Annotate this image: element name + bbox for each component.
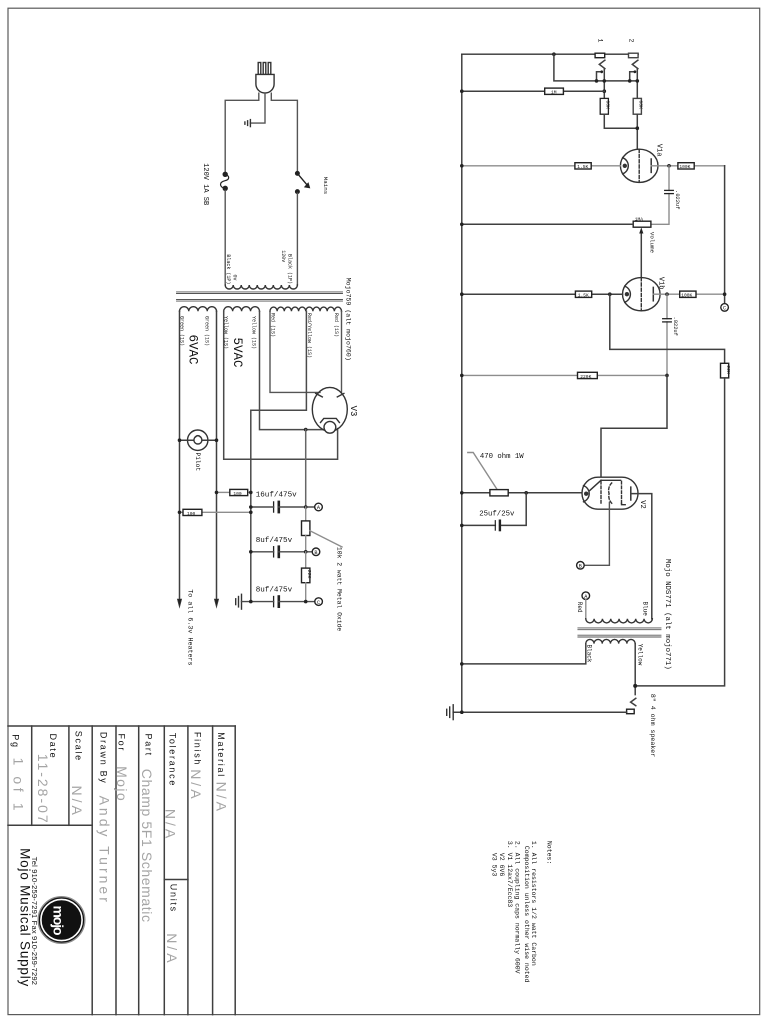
notes text block — [490, 841, 552, 983]
wire jack1 tip down — [603, 69, 605, 99]
svg-text:16uf/475v: 16uf/475v — [256, 491, 297, 499]
wire jack2 tip down — [636, 69, 638, 99]
svg-text:Notes:: Notes: — [545, 841, 552, 864]
svg-text:120v: 120v — [280, 250, 286, 262]
OT core — [578, 628, 661, 637]
wire yellow right to V3 filament — [260, 311, 324, 429]
leader line 10k note — [310, 531, 342, 547]
input jack 2 tip contact — [632, 60, 638, 68]
OT primary winding — [586, 619, 653, 623]
svg-text:V3 5y3: V3 5y3 — [490, 853, 497, 877]
220K grid leak line — [462, 374, 667, 376]
fuse F1 120V 1A SB — [221, 172, 229, 191]
svg-text:To all 6.3v Heaters: To all 6.3v Heaters — [186, 589, 194, 665]
V1b cathode line with 1.5K — [462, 293, 623, 295]
svg-text:2. All coupling caps normally: 2. All coupling caps normally 600V — [514, 841, 521, 974]
svg-text:N/A: N/A — [69, 786, 85, 818]
jack 2 shorting contact — [630, 72, 634, 81]
wire 22K down to speaker — [635, 378, 724, 686]
svg-text:.022uf: .022uf — [674, 190, 680, 209]
rectifier tube V3 — [312, 387, 347, 433]
wire plug right lead to switch — [271, 93, 297, 172]
svg-text:100K: 100K — [679, 164, 690, 170]
svg-text:100: 100 — [187, 511, 196, 517]
svg-text:Pg: Pg — [10, 734, 20, 748]
filter cap 16uf/475v — [274, 502, 279, 512]
svg-text:N/A: N/A — [213, 782, 229, 814]
svg-text:Pilot: Pilot — [194, 453, 201, 472]
triode V1a — [620, 149, 658, 182]
T1 secondary winding yellow 5VAC — [224, 307, 260, 312]
resistor box 100K (V1b) — [680, 291, 696, 297]
junction dot B+ takeoff — [304, 428, 308, 432]
transformer T1 core — [177, 292, 343, 301]
svg-text:11-28-07: 11-28-07 — [35, 754, 51, 825]
resistor box 100 (left heater) — [183, 509, 202, 515]
triode V1b — [623, 278, 661, 311]
svg-text:Mojo759 (alt mojo760): Mojo759 (alt mojo760) — [345, 278, 352, 361]
power tube V2 — [582, 477, 638, 509]
svg-text:100: 100 — [233, 491, 242, 497]
wire 100K to node C drop — [724, 166, 726, 304]
wire red/yellow CT to ground rail — [251, 311, 307, 601]
svg-text:N/A: N/A — [163, 809, 179, 841]
mains plug P1 — [256, 63, 274, 94]
wire fuse to primary left — [224, 190, 226, 285]
speaker tip contact — [631, 698, 636, 705]
svg-text:V1a: V1a — [655, 144, 663, 157]
svg-text:2: 2 — [627, 39, 634, 43]
svg-text:Part: Part — [144, 734, 154, 757]
svg-text:C: C — [723, 306, 726, 312]
wire pot left to bus — [462, 223, 633, 225]
svg-text:N/A: N/A — [188, 769, 204, 801]
svg-text:22K: 22K — [725, 365, 731, 374]
wire B+ drop to node A line — [305, 430, 307, 507]
input jack 1 tip contact — [599, 60, 605, 68]
svg-text:Volume: Volume — [649, 232, 656, 254]
wire green left heater drop with arrow — [177, 311, 181, 607]
wire OT secondary black to bus — [462, 644, 586, 664]
resistor 22K vertical (supply) — [305, 552, 307, 568]
wire top ground to jacks — [462, 53, 638, 55]
wire plug left lead to fuse — [225, 93, 259, 172]
svg-text:68K: 68K — [605, 100, 611, 109]
pot wiper arrow to V1b grid — [640, 232, 642, 278]
svg-text:Material: Material — [216, 732, 226, 778]
svg-text:25uf/25v: 25uf/25v — [479, 510, 515, 518]
svg-text:10k 2 watt Metal Oxide: 10k 2 watt Metal Oxide — [336, 547, 343, 632]
bypass cap 25uf/25v — [462, 493, 526, 526]
V2 plate wire to OT — [631, 494, 652, 619]
resistor box 100 (right heater) — [230, 489, 248, 495]
svg-text:1 of 1: 1 of 1 — [11, 758, 27, 815]
svg-text:8" 4 ohm speaker: 8" 4 ohm speaker — [649, 694, 656, 757]
ground symbol (main) — [447, 705, 454, 720]
node C circle (supply) — [315, 598, 323, 606]
node B circle (supply) — [312, 548, 320, 556]
wire green right heater drop with arrow — [214, 311, 218, 607]
wire switch to primary right — [296, 193, 298, 285]
svg-text:Mains: Mains — [322, 177, 329, 194]
resistor 22K feedback vertical — [721, 363, 729, 378]
svg-text:Mojo: Mojo — [114, 766, 130, 802]
wire jack shorting feed — [554, 54, 637, 81]
svg-text:Blue: Blue — [642, 602, 649, 617]
OT secondary winding — [586, 639, 635, 643]
svg-text:1MA: 1MA — [635, 216, 644, 222]
svg-text:Red (1S): Red (1S) — [333, 313, 339, 337]
node B circle (V2 screen) — [577, 562, 585, 570]
svg-text:470 ohm 1W: 470 ohm 1W — [480, 453, 524, 461]
svg-text:3. V1 12ax7/Ecc83: 3. V1 12ax7/Ecc83 — [506, 841, 513, 907]
svg-text:Drawn By: Drawn By — [99, 732, 109, 785]
resistor box 470 — [490, 490, 508, 496]
svg-text:Units: Units — [168, 884, 178, 913]
resistor box 1M — [545, 88, 564, 94]
svg-text:5VAC: 5VAC — [230, 338, 244, 368]
resistor 1M line — [462, 90, 605, 92]
svg-text:V2 6V6: V2 6V6 — [498, 853, 505, 877]
Mojo logo — [38, 897, 85, 944]
wire OT secondary yellow to speaker — [634, 644, 636, 695]
earth ground symbol — [245, 120, 251, 127]
resistor 10K 2W vertical — [305, 507, 307, 521]
svg-text:0v: 0v — [232, 275, 238, 281]
svg-text:1: 1 — [597, 39, 604, 43]
svg-text:Champ 5F1 Schematic: Champ 5F1 Schematic — [139, 769, 155, 923]
wire earth lead — [250, 93, 265, 123]
junction dot jack feed — [552, 52, 556, 56]
V1a cathode line with 1.5K — [462, 165, 621, 167]
feedback wire from V1b cathode — [610, 294, 725, 363]
svg-text:.022uf: .022uf — [672, 317, 678, 336]
pilot lamp — [188, 430, 208, 450]
svg-text:Black (1P): Black (1P) — [225, 254, 231, 284]
ground bus vertical — [461, 54, 463, 712]
svg-text:Mojo NDS771 (alt mojo771): Mojo NDS771 (alt mojo771) — [663, 559, 671, 670]
svg-text:1.5K: 1.5K — [578, 293, 589, 299]
title block frame — [8, 726, 235, 1015]
wire red right to V3 plate — [341, 311, 343, 392]
filter cap 8uf/475v (node C) — [274, 597, 279, 607]
svg-text:100K: 100K — [681, 293, 692, 299]
svg-text:Finish: Finish — [193, 732, 203, 766]
input jack 1 sleeve — [595, 53, 605, 58]
svg-text:N/A: N/A — [164, 933, 180, 965]
wire pilot across heaters — [180, 439, 217, 441]
svg-text:Red: Red — [576, 602, 583, 613]
svg-text:22K: 22K — [306, 570, 312, 579]
transformer T1 primary winding — [225, 285, 297, 289]
coupling cap .022uf (V1b) — [666, 294, 668, 375]
V1a plate line with 100K — [651, 165, 724, 167]
wire 68K outputs join to V1a grid — [604, 114, 637, 149]
resistor box 1.5K (V1a) — [575, 163, 591, 169]
jack 1 shorting contact — [597, 72, 601, 81]
svg-text:1M: 1M — [551, 90, 557, 96]
node A circle (OT primary) — [582, 592, 590, 600]
svg-text:8uf/475v: 8uf/475v — [256, 586, 293, 594]
node C circle (V1 plates) — [721, 304, 729, 312]
wire node A to OT primary — [585, 600, 587, 619]
svg-text:Tolerance: Tolerance — [168, 733, 178, 787]
svg-text:Andy Turner: Andy Turner — [96, 796, 112, 905]
svg-text:Composition unless other wise: Composition unless other wise noted — [523, 846, 530, 983]
svg-text:1.5K: 1.5K — [577, 164, 588, 170]
pilot lamp inner — [194, 436, 202, 444]
V1b plate line with 100K — [653, 293, 724, 295]
resistor 68K jack2 — [633, 98, 641, 114]
wire V2 grid path — [601, 375, 667, 480]
junction dots pilot — [178, 438, 182, 442]
svg-text:120V 1A SB: 120V 1A SB — [201, 163, 209, 205]
wire yellow left to V3 filament return — [224, 311, 338, 459]
filter cap 8uf/475v (node B) — [274, 547, 279, 557]
svg-text:Black (1P): Black (1P) — [286, 254, 292, 284]
svg-text:V3: V3 — [348, 406, 358, 417]
svg-text:V1b: V1b — [657, 277, 665, 290]
svg-text:V2: V2 — [638, 500, 646, 508]
svg-text:For: For — [117, 734, 127, 753]
svg-text:6VAC: 6VAC — [185, 335, 199, 365]
wire red left to V3 plate — [270, 311, 320, 392]
switch S1 Mains — [296, 172, 310, 194]
svg-text:B: B — [314, 550, 317, 556]
svg-text:8uf/475v: 8uf/475v — [256, 537, 293, 545]
svg-text:Yellow: Yellow — [636, 644, 643, 666]
heater hum resistor 100 left line — [180, 511, 184, 513]
node A circle (supply) — [315, 503, 323, 511]
coupling cap .022uf (V1a) — [651, 166, 669, 225]
svg-text:Scale: Scale — [74, 731, 84, 762]
volume pot 1MA — [633, 221, 651, 227]
svg-text:220K: 220K — [580, 374, 591, 380]
svg-text:mojo: mojo — [51, 906, 67, 936]
svg-text:Yellow (1S): Yellow (1S) — [251, 316, 257, 349]
svg-text:B: B — [579, 564, 582, 570]
svg-text:68K: 68K — [638, 100, 644, 109]
input jack 2 sleeve — [629, 53, 639, 58]
resistor 68K jack1 — [600, 98, 608, 114]
ground symbol (filter) — [236, 594, 242, 609]
resistor box 220K — [578, 372, 598, 378]
svg-text:1. All resistors 1/2 watt Carb: 1. All resistors 1/2 watt Carbon — [530, 841, 537, 966]
resistor box 100K (V1a) — [678, 163, 694, 169]
resistor box 1.5K (V1b) — [575, 291, 591, 297]
T1 secondary winding green 6VAC — [180, 307, 217, 312]
heater hum resistor 100 right line — [217, 491, 230, 493]
V2 cathode line with 470 ohm — [462, 492, 584, 494]
svg-text:Green (1S): Green (1S) — [203, 316, 209, 346]
wire speaker return to ground — [453, 711, 626, 713]
speaker terminal — [627, 709, 635, 714]
T1 secondary winding red HV — [270, 307, 341, 311]
V2 screen wire to node B — [584, 503, 609, 566]
leader line 470 ohm — [468, 453, 497, 490]
svg-text:C: C — [317, 600, 320, 606]
